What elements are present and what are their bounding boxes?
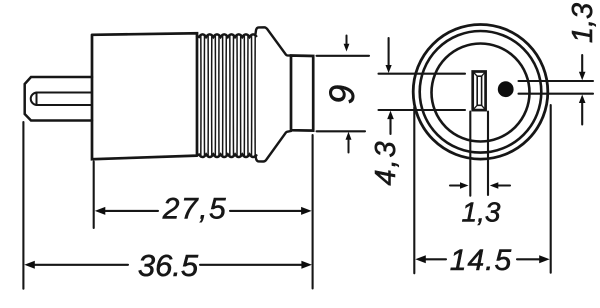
- svg-text:36.5: 36.5: [138, 248, 199, 283]
- front view inner circle: [432, 44, 530, 142]
- shared right extension line: [312, 135, 314, 289]
- dim 9: extension lines: [317, 56, 370, 132]
- slot outer: [473, 72, 486, 111]
- rear cylinder: [291, 56, 313, 131]
- slot inner: [477, 76, 481, 105]
- front view middle circle: [420, 31, 542, 153]
- dot: [498, 81, 514, 97]
- plug tip housing: [25, 77, 92, 121]
- dim 1,3 top right: upper arrow: [579, 55, 586, 80]
- svg-text:27,5: 27,5: [162, 193, 227, 226]
- dim 1,3 bottom: left arrow: [450, 182, 469, 189]
- dim 27,5: left extension line: [93, 162, 95, 229]
- dim 1,3 top right: lower arrow: [579, 95, 586, 125]
- dim 1,3 bottom: extension lines: [470, 112, 488, 196]
- dim 36.5: line with arrows: [24, 261, 312, 269]
- dim 27,5: line with arrows: [95, 207, 312, 215]
- dim 9: bottom arrow: [346, 132, 352, 153]
- collar and taper cone top: [255, 27, 291, 55]
- dim 4,3: top arrow: [386, 38, 392, 73]
- dim 1,3 top right: extension lines: [519, 81, 594, 94]
- knurl scalloped top edge: [197, 34, 257, 37]
- front view outer circle: [413, 25, 548, 160]
- dim 9: top arrow: [344, 36, 350, 52]
- main body: [92, 33, 197, 159]
- svg-text:4,3: 4,3: [370, 139, 402, 185]
- dim 36.5: left extension line: [22, 122, 24, 289]
- dim 4,3: bottom arrow: [387, 111, 394, 134]
- slot bevels: [473, 72, 486, 111]
- svg-text:14.5: 14.5: [450, 244, 512, 277]
- knurl vertical lines: [201, 35, 255, 157]
- dim 1,3 bottom: right arrow: [490, 182, 510, 189]
- dim 14.5: line with arrows: [415, 255, 549, 263]
- center pin: [37, 93, 93, 106]
- knurl scalloped bottom edge: [197, 154, 257, 157]
- svg-text:1,3: 1,3: [567, 3, 599, 43]
- svg-text:1,3: 1,3: [462, 197, 501, 228]
- svg-text:9: 9: [323, 85, 362, 104]
- dim 4,3: extension lines: [379, 74, 466, 110]
- collar and taper cone bottom: [255, 131, 291, 162]
- dim 14.5: extension lines: [414, 105, 550, 273]
